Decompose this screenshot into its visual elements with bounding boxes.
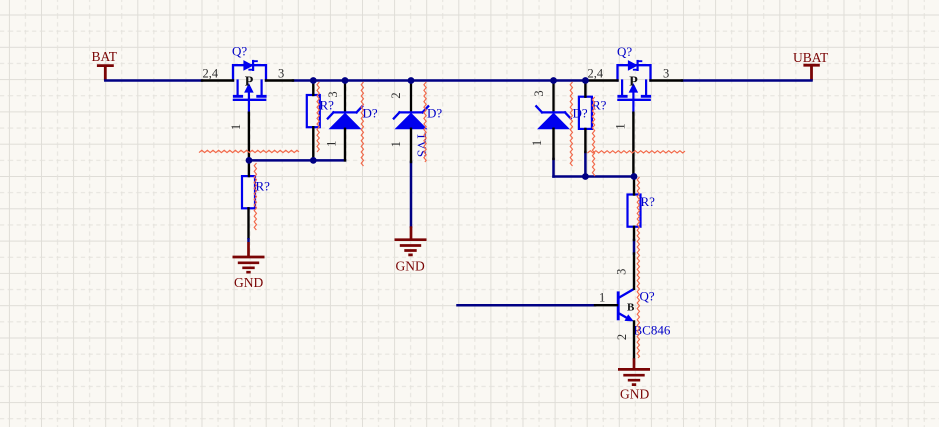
wire bottom-left node <box>249 159 345 162</box>
svg-text:GND: GND <box>234 275 263 290</box>
junction node 6 <box>246 157 253 164</box>
squiggle along R1 <box>317 82 319 152</box>
squiggle along D1 <box>361 82 363 166</box>
svg-text:Q?: Q? <box>232 44 247 59</box>
pin 1 base of bjt <box>595 304 617 306</box>
svg-text:D?: D? <box>363 105 378 120</box>
svg-text:3: 3 <box>278 66 284 80</box>
svg-text:R?: R? <box>641 194 656 209</box>
wire D2 to GND <box>410 162 413 227</box>
svg-text:3: 3 <box>663 66 669 80</box>
svg-text:1: 1 <box>325 141 339 147</box>
svg-text:B: B <box>627 302 635 314</box>
svg-text:R?: R? <box>256 179 271 194</box>
svg-text:1: 1 <box>229 124 243 130</box>
squiggle along R4 and Q3 <box>637 177 639 358</box>
resistor R? mid-left <box>307 95 320 127</box>
junction node 1 <box>310 77 317 84</box>
resistor R? mid-right <box>579 97 592 129</box>
wire base of Q3 <box>458 304 596 307</box>
wire BAT to Q1 <box>105 79 202 82</box>
junction node 9 <box>631 173 638 180</box>
svg-text:3: 3 <box>326 91 340 97</box>
wire D3 lower <box>552 159 555 177</box>
svg-text:UBAT: UBAT <box>793 50 829 65</box>
squiggle along R2 <box>254 163 256 230</box>
pin 1 of left mosfet <box>248 113 250 162</box>
transistor Q? P-MOSFET right <box>618 61 651 113</box>
svg-text:D?: D? <box>573 105 588 120</box>
svg-text:2: 2 <box>615 334 629 340</box>
pin 2,4 of right mosfet <box>587 79 618 81</box>
junction node 3 <box>408 77 415 84</box>
squiggle along D3 <box>570 82 572 166</box>
svg-text:1: 1 <box>389 141 403 147</box>
pin 2,4 of left mosfet <box>202 79 233 81</box>
wire Q1 to Q2 top bus <box>293 79 587 82</box>
pin 3 of left mosfet <box>266 79 293 81</box>
junction node 5 <box>582 77 589 84</box>
transistor Q? BC846 <box>618 289 634 322</box>
svg-text:1: 1 <box>599 290 605 304</box>
ground GND right <box>633 358 636 369</box>
svg-text:Q?: Q? <box>617 44 632 59</box>
wire bottom-right node <box>554 175 635 178</box>
wire Q2 to UBAT <box>682 79 812 82</box>
power port BAT <box>92 49 118 81</box>
power port UBAT <box>793 50 829 81</box>
svg-text:GND: GND <box>396 259 425 274</box>
pin 3 collector of bjt <box>633 254 635 289</box>
wire R3 lower <box>584 152 587 177</box>
pin 3 of right mosfet <box>651 79 683 81</box>
squiggle under left node wire <box>199 150 299 152</box>
wire R4 to Q3 <box>633 240 636 254</box>
transistor Q? P-MOSFET left <box>233 61 266 113</box>
diode D? TVS middle <box>394 81 428 129</box>
resistor R? bottom-left <box>242 176 255 208</box>
junction node 4 <box>550 77 557 84</box>
svg-text:2: 2 <box>389 92 403 98</box>
junction node 8 <box>582 173 589 180</box>
svg-text:D?: D? <box>427 105 442 120</box>
svg-text:R?: R? <box>592 98 607 113</box>
svg-text:3: 3 <box>615 269 629 275</box>
svg-text:BC846: BC846 <box>634 323 671 338</box>
svg-text:1: 1 <box>530 140 544 146</box>
svg-text:BAT: BAT <box>92 49 118 64</box>
ground GND middle <box>410 226 413 239</box>
svg-text:Q?: Q? <box>640 289 655 304</box>
svg-text:1: 1 <box>614 123 628 129</box>
diode D? TVS left <box>328 81 362 129</box>
svg-text:2,4: 2,4 <box>588 66 604 80</box>
squiggle along R3 <box>592 97 594 176</box>
svg-text:3: 3 <box>532 90 546 96</box>
junction node 7 <box>310 157 317 164</box>
svg-text:GND: GND <box>620 387 649 402</box>
squiggle under right node wire <box>588 151 685 153</box>
resistor R? bottom-right <box>628 195 641 227</box>
svg-text:R?: R? <box>320 98 335 113</box>
pin 2 emitter of bjt <box>633 322 635 359</box>
diode D? TVS right <box>536 81 570 129</box>
svg-text:2,4: 2,4 <box>203 66 219 80</box>
squiggle along D2 <box>424 82 426 162</box>
pin 1 of right mosfet <box>632 113 634 177</box>
svg-text:TVS: TVS <box>414 133 429 158</box>
junction node 2 <box>342 77 349 84</box>
ground GND left <box>247 238 250 242</box>
